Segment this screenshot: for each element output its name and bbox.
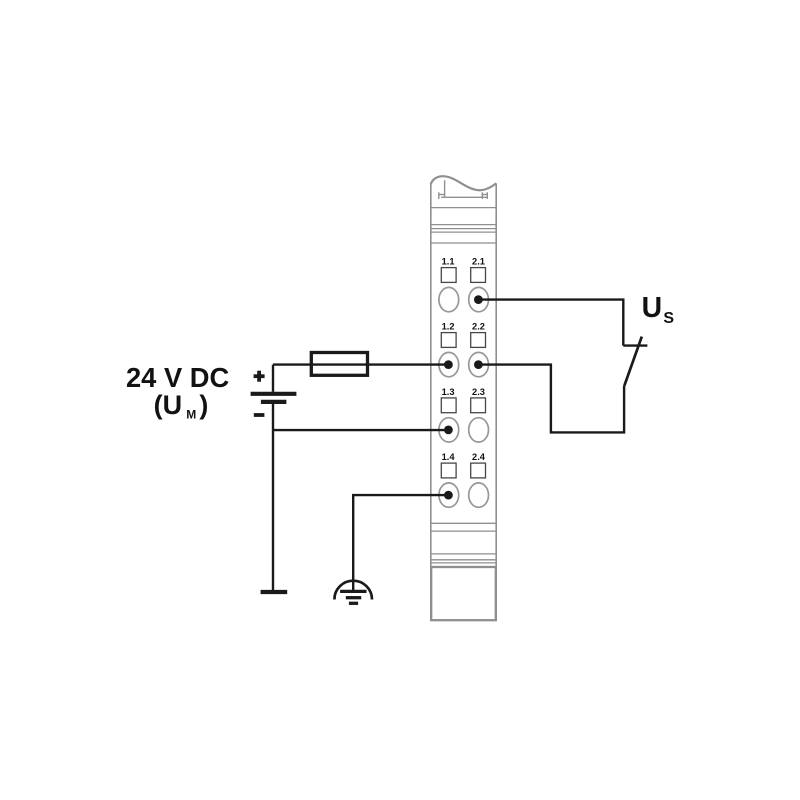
wire: battery minus to terminal 1.3 xyxy=(273,429,448,431)
module wavy top edge xyxy=(431,176,496,190)
svg-text:2.1: 2.1 xyxy=(472,257,485,267)
switch S1 blade xyxy=(624,337,642,386)
wire: terminal 1.4 to ground xyxy=(353,495,448,591)
switch S1 fixed contact tick xyxy=(623,344,647,346)
svg-text:(UM): (UM) xyxy=(154,390,209,421)
junction dot terminal 1.4 xyxy=(444,491,453,500)
svg-text:2.2: 2.2 xyxy=(472,322,485,332)
svg-text:2.4: 2.4 xyxy=(472,452,486,462)
battery negative end bar xyxy=(261,590,288,594)
terminal point 2.2 xyxy=(469,352,489,376)
terminal point 2.3 xyxy=(469,418,489,442)
module mounting bracket xyxy=(439,180,488,199)
wire: battery plus through fuse to terminal 1.2 xyxy=(273,363,448,365)
terminal slot square 1.3 xyxy=(441,398,456,413)
svg-text:2.3: 2.3 xyxy=(472,387,485,397)
wire: terminal 2.1 to switch top xyxy=(478,300,623,346)
battery negative plate xyxy=(261,400,287,404)
terminal slot square 1.4 xyxy=(441,463,456,478)
terminal point 1.2 xyxy=(439,352,459,376)
terminal point 1.3 xyxy=(439,418,459,442)
terminal slot square 1.2 xyxy=(441,333,456,348)
plus sign xyxy=(254,371,265,382)
terminal slot square 2.2 xyxy=(471,333,486,348)
ground symbol dome arc xyxy=(334,581,372,600)
terminal point 2.1 xyxy=(469,287,489,311)
terminal point 1.1 xyxy=(439,287,459,311)
terminal slot square 2.4 xyxy=(471,463,486,478)
svg-text:24 V DC: 24 V DC xyxy=(126,362,229,393)
terminal point 1.4 xyxy=(439,483,459,507)
minus sign xyxy=(254,413,265,417)
ground symbol earth bar 3 xyxy=(349,602,358,605)
svg-text:US: US xyxy=(642,292,675,327)
module base box xyxy=(431,567,496,620)
svg-text:1.3: 1.3 xyxy=(442,387,455,397)
wire: terminal 2.2 to switch bottom xyxy=(478,365,624,433)
terminal slot square 2.1 xyxy=(471,268,486,283)
ground symbol earth bar 2 xyxy=(346,596,361,599)
junction dot terminal 1.3 xyxy=(444,426,453,435)
module panel separator lines xyxy=(431,208,496,563)
battery negative lead xyxy=(272,404,274,590)
terminal slot square 1.1 xyxy=(441,268,456,283)
junction dot terminal 1.2 xyxy=(444,360,453,369)
battery positive plate xyxy=(251,392,297,396)
battery positive lead xyxy=(272,365,274,392)
svg-text:1.1: 1.1 xyxy=(442,257,455,267)
junction dot terminal 2.2 xyxy=(474,360,483,369)
junction dot terminal 2.1 xyxy=(474,295,483,304)
ground symbol earth bar 1 xyxy=(340,590,366,593)
terminal point 2.4 xyxy=(469,483,489,507)
svg-text:1.2: 1.2 xyxy=(442,322,455,332)
svg-text:1.4: 1.4 xyxy=(442,452,456,462)
terminal slot square 2.3 xyxy=(471,398,486,413)
fuse F1 xyxy=(311,353,367,376)
module housing outline xyxy=(431,183,496,620)
